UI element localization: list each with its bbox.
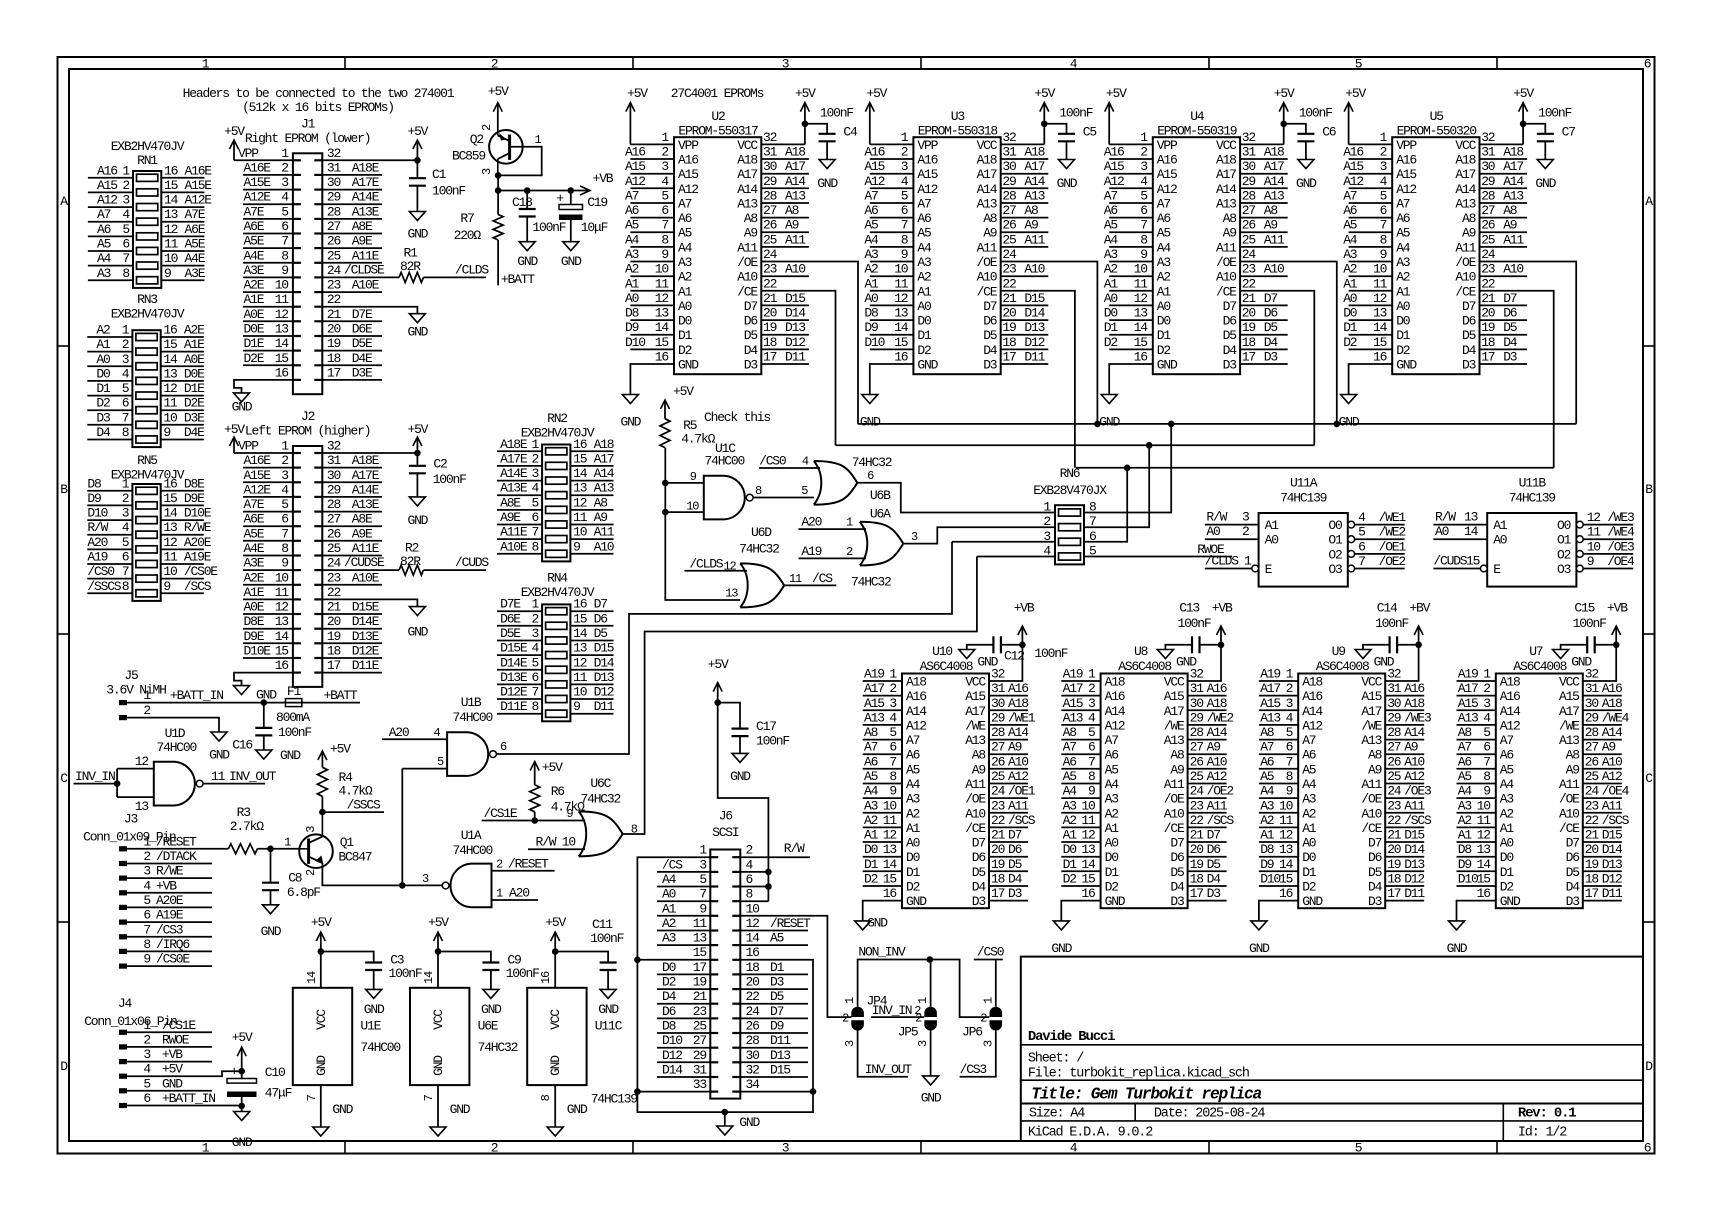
RN2 pin 12 wire bbox=[570, 509, 613, 511]
svg-text:A16: A16 bbox=[97, 163, 117, 178]
capacitor C18 bbox=[524, 187, 531, 194]
U3 right pin 31 wire A18 bbox=[1001, 158, 1049, 160]
svg-text:GND: GND bbox=[598, 1002, 619, 1017]
svg-text:13: 13 bbox=[1134, 306, 1148, 321]
svg-text:A18: A18 bbox=[1024, 145, 1044, 160]
svg-text:14: 14 bbox=[1477, 857, 1492, 872]
svg-text:14: 14 bbox=[655, 320, 670, 335]
svg-text:A20: A20 bbox=[801, 515, 821, 530]
svg-text:D15: D15 bbox=[770, 1063, 790, 1078]
svg-text:GND: GND bbox=[232, 1135, 253, 1150]
svg-text:11: 11 bbox=[163, 396, 178, 411]
svg-text:GND: GND bbox=[860, 415, 881, 430]
RN1 pin 15 wire bbox=[161, 191, 204, 193]
svg-text:2: 2 bbox=[122, 178, 129, 193]
svg-text:D4: D4 bbox=[96, 425, 111, 440]
svg-text:A9: A9 bbox=[1024, 218, 1038, 233]
svg-text:18: 18 bbox=[746, 960, 760, 975]
svg-text:28: 28 bbox=[1481, 189, 1495, 204]
svg-text:19: 19 bbox=[693, 975, 707, 990]
svg-text:VCC: VCC bbox=[1361, 675, 1382, 690]
svg-text:A11: A11 bbox=[1207, 798, 1228, 813]
svg-text:3: 3 bbox=[281, 175, 288, 190]
svg-text:7: 7 bbox=[889, 754, 896, 769]
svg-text:D3: D3 bbox=[972, 894, 986, 909]
svg-text:A9: A9 bbox=[1170, 762, 1184, 777]
svg-text:11: 11 bbox=[883, 813, 898, 828]
RN5 pin 5 wire bbox=[87, 548, 132, 550]
svg-text:2: 2 bbox=[531, 611, 538, 626]
svg-text:+VB: +VB bbox=[162, 1047, 183, 1062]
svg-text:D4E: D4E bbox=[184, 425, 205, 440]
svg-text:A9: A9 bbox=[1264, 218, 1278, 233]
svg-text:22: 22 bbox=[1481, 276, 1495, 291]
svg-text:D15E: D15E bbox=[500, 641, 528, 656]
J6 right pin 12 wire /RESET bbox=[740, 930, 808, 932]
svg-text:23: 23 bbox=[1190, 798, 1204, 813]
U5 left pin 2 wire A16 bbox=[1349, 158, 1393, 160]
svg-text:A3E: A3E bbox=[185, 266, 206, 281]
svg-text:A12: A12 bbox=[1404, 769, 1424, 784]
svg-text:A5: A5 bbox=[1157, 226, 1171, 241]
svg-text:17: 17 bbox=[1190, 886, 1204, 901]
U8 left pin 12 wire A1 bbox=[1061, 841, 1100, 843]
U2 pin 32 VCC wire bbox=[761, 143, 805, 145]
svg-text:/CE: /CE bbox=[1164, 821, 1185, 836]
svg-text:A1: A1 bbox=[1265, 518, 1280, 533]
U10 left pin 1 wire A19 bbox=[863, 680, 902, 682]
svg-text:D5: D5 bbox=[1462, 328, 1476, 343]
svg-text:13: 13 bbox=[1373, 306, 1387, 321]
svg-text:D5: D5 bbox=[1008, 857, 1022, 872]
svg-text:A8E: A8E bbox=[352, 512, 373, 527]
svg-text:A5: A5 bbox=[1458, 769, 1472, 784]
svg-text:A7: A7 bbox=[917, 197, 931, 212]
svg-text:GND: GND bbox=[678, 358, 699, 373]
svg-text:+VB: +VB bbox=[1014, 601, 1035, 616]
svg-text:GND: GND bbox=[1249, 941, 1270, 956]
svg-text:D0: D0 bbox=[1157, 314, 1171, 329]
svg-text:A14: A14 bbox=[1264, 174, 1285, 189]
svg-text:A10: A10 bbox=[1404, 754, 1424, 769]
svg-text:A16: A16 bbox=[1008, 681, 1028, 696]
svg-text:A14: A14 bbox=[1216, 182, 1237, 197]
svg-text:A16E: A16E bbox=[244, 453, 272, 468]
capacitor C8 bbox=[270, 849, 272, 883]
svg-text:D2: D2 bbox=[906, 880, 920, 895]
svg-text:19: 19 bbox=[1190, 857, 1204, 872]
resistor R4 with +5V and /SSCS bbox=[319, 809, 326, 816]
svg-text:A12: A12 bbox=[1343, 174, 1363, 189]
transistor Q1 BC847 bbox=[299, 834, 333, 868]
svg-text:A11E: A11E bbox=[500, 525, 528, 540]
svg-text:17: 17 bbox=[991, 886, 1005, 901]
J1 right pin 21 wire D7E bbox=[322, 320, 382, 322]
svg-text:22: 22 bbox=[763, 276, 777, 291]
svg-text:A8: A8 bbox=[1462, 211, 1476, 226]
U5 right pin 17 wire D3 bbox=[1480, 363, 1528, 365]
U2 left pin 10 wire A2 bbox=[630, 275, 674, 277]
svg-text:14: 14 bbox=[164, 193, 179, 208]
svg-text:3: 3 bbox=[143, 1047, 150, 1062]
svg-text:9: 9 bbox=[1140, 247, 1147, 262]
RN1 internal resistor 3 bbox=[137, 204, 158, 211]
svg-text:A17: A17 bbox=[737, 167, 757, 182]
U3 left pin 3 wire A15 bbox=[870, 173, 914, 175]
svg-text:15: 15 bbox=[275, 644, 289, 659]
svg-text:5: 5 bbox=[1380, 189, 1387, 204]
svg-text:100nF: 100nF bbox=[1059, 106, 1092, 121]
svg-text:A13: A13 bbox=[965, 733, 985, 748]
RN4 pin 16 wire bbox=[570, 610, 613, 612]
svg-text:A0: A0 bbox=[662, 887, 676, 902]
svg-text:12: 12 bbox=[163, 381, 177, 396]
U3 right pin 29 wire A14 bbox=[1001, 187, 1049, 189]
svg-text:A3: A3 bbox=[864, 798, 878, 813]
svg-text:10: 10 bbox=[686, 500, 699, 514]
svg-text:A8: A8 bbox=[1024, 203, 1038, 218]
svg-text:74HC32: 74HC32 bbox=[852, 455, 892, 470]
svg-text:R/W: R/W bbox=[784, 841, 805, 856]
svg-text:12: 12 bbox=[724, 559, 737, 573]
svg-text:A5: A5 bbox=[770, 931, 784, 946]
svg-text:20: 20 bbox=[1481, 306, 1495, 321]
svg-text:A19: A19 bbox=[87, 550, 107, 565]
svg-text:A15: A15 bbox=[97, 178, 117, 193]
U3 pin 22 /CE wire trunk bbox=[1001, 291, 1075, 468]
capacitor C16 bbox=[263, 703, 265, 728]
svg-text:11: 11 bbox=[164, 237, 179, 252]
RN1 internal resistor 1 bbox=[137, 174, 158, 181]
svg-text:KiCad E.D.A. 9.0.2: KiCad E.D.A. 9.0.2 bbox=[1028, 1126, 1153, 1141]
svg-text:8: 8 bbox=[901, 232, 908, 247]
svg-text:A1E: A1E bbox=[184, 337, 205, 352]
svg-text:D11: D11 bbox=[785, 350, 806, 365]
svg-text:A0: A0 bbox=[1104, 291, 1118, 306]
U4 pin 22 /CE wire trunk bbox=[1240, 291, 1314, 446]
U2 pin 24 /OE wire trunk bbox=[761, 262, 858, 424]
svg-text:D6: D6 bbox=[1566, 850, 1580, 865]
svg-text:GND: GND bbox=[561, 254, 582, 269]
J1 left pin 5 wire A7E bbox=[243, 218, 293, 220]
svg-text:25: 25 bbox=[1585, 769, 1599, 784]
svg-text:3: 3 bbox=[122, 193, 129, 208]
svg-text:R/WE: R/WE bbox=[156, 864, 184, 879]
svg-text:D1: D1 bbox=[1157, 328, 1172, 343]
wire /OE distribution net bbox=[858, 423, 1576, 425]
RN6 internal resistor 2 bbox=[1059, 524, 1081, 531]
svg-text:12: 12 bbox=[746, 916, 760, 931]
svg-text:30: 30 bbox=[1585, 696, 1599, 711]
fuse F1 bbox=[261, 699, 268, 706]
svg-text:21: 21 bbox=[327, 307, 342, 322]
svg-text:A3: A3 bbox=[1500, 792, 1514, 807]
svg-text:C2: C2 bbox=[433, 457, 447, 472]
svg-text:29: 29 bbox=[1190, 710, 1204, 725]
svg-text:A15: A15 bbox=[965, 689, 985, 704]
JP5 pin 3 wire to GND bbox=[930, 1028, 932, 1076]
svg-text:5: 5 bbox=[1358, 525, 1365, 540]
resistor network RN1 bbox=[133, 171, 161, 288]
svg-text:A7: A7 bbox=[864, 189, 878, 204]
svg-text:A18: A18 bbox=[1207, 696, 1227, 711]
U4 right pin 27 wire A8 bbox=[1240, 217, 1288, 219]
U4 right pin 29 wire A14 bbox=[1240, 187, 1288, 189]
svg-text:D5: D5 bbox=[594, 626, 608, 641]
U5 left pin 4 wire A12 bbox=[1349, 187, 1393, 189]
U5 right pin 29 wire A14 bbox=[1480, 187, 1528, 189]
RN2 pin 7 wire bbox=[497, 538, 542, 540]
svg-text:A1: A1 bbox=[625, 276, 640, 291]
U9 right pin 21 wire D15 bbox=[1385, 841, 1424, 843]
svg-text:/OE: /OE bbox=[977, 255, 998, 270]
U8 right pin 30 wire A18 bbox=[1188, 709, 1227, 711]
svg-text:A19: A19 bbox=[1458, 667, 1478, 682]
svg-text:2: 2 bbox=[281, 160, 288, 175]
U7 right pin 18 wire D12 bbox=[1583, 885, 1622, 887]
svg-text:D0: D0 bbox=[1105, 850, 1119, 865]
RN4 internal resistor 1 bbox=[546, 608, 567, 615]
svg-text:A8E: A8E bbox=[500, 495, 521, 510]
svg-text:D5: D5 bbox=[770, 989, 784, 1004]
svg-text:D6: D6 bbox=[983, 314, 997, 329]
svg-text:14: 14 bbox=[305, 971, 319, 984]
J6 left pin 5 wire A4 bbox=[657, 886, 710, 888]
svg-text:/CE: /CE bbox=[737, 284, 758, 299]
svg-text:13: 13 bbox=[573, 481, 587, 496]
U10 left pin 10 wire A3 bbox=[863, 812, 902, 814]
svg-text:D5: D5 bbox=[1170, 865, 1184, 880]
svg-text:A0: A0 bbox=[1206, 524, 1220, 539]
svg-text:A6: A6 bbox=[1396, 211, 1410, 226]
J6 right pin 24 wire D7 bbox=[740, 1017, 808, 1019]
RN4 pin 1 wire bbox=[497, 610, 542, 612]
U9 right pin 22 wire /SCS bbox=[1385, 826, 1424, 828]
svg-text:/IRQ6: /IRQ6 bbox=[156, 937, 189, 952]
svg-text:O2: O2 bbox=[1557, 547, 1571, 562]
svg-text:U8: U8 bbox=[1134, 644, 1148, 659]
svg-text:29: 29 bbox=[1002, 174, 1016, 189]
svg-text:/SCS: /SCS bbox=[184, 579, 212, 594]
U9 left pin 11 wire A2 bbox=[1259, 826, 1298, 828]
RN1 pin 2 wire bbox=[88, 191, 133, 193]
svg-text:10: 10 bbox=[164, 251, 178, 266]
svg-text:A10: A10 bbox=[594, 539, 614, 554]
svg-text:U1E: U1E bbox=[360, 1019, 381, 1034]
U3 left pin 5 wire A7 bbox=[870, 202, 914, 204]
svg-text:D10: D10 bbox=[864, 335, 884, 350]
svg-text:13: 13 bbox=[164, 207, 178, 222]
svg-text:A15: A15 bbox=[1104, 159, 1124, 174]
svg-text:VCC: VCC bbox=[1455, 138, 1476, 153]
resistor R6 with +5V bbox=[534, 762, 536, 785]
svg-text:15: 15 bbox=[655, 335, 669, 350]
svg-text:D4: D4 bbox=[1566, 880, 1581, 895]
svg-text:A7: A7 bbox=[1343, 189, 1357, 204]
J6 right pin 22 wire D5 bbox=[740, 1003, 808, 1005]
RN5 internal resistor 4 bbox=[136, 531, 157, 538]
svg-text:A5: A5 bbox=[864, 769, 878, 784]
svg-text:22: 22 bbox=[991, 813, 1005, 828]
U11B output 12 wire /WE3 bbox=[1576, 521, 1583, 528]
svg-text:12: 12 bbox=[1134, 291, 1148, 306]
svg-text:27: 27 bbox=[1585, 740, 1599, 755]
svg-text:13: 13 bbox=[655, 306, 669, 321]
net NON_INV wire bbox=[858, 960, 990, 1018]
RN5 pin 1 wire bbox=[87, 490, 132, 492]
svg-text:17: 17 bbox=[327, 365, 341, 380]
svg-text:D0E: D0E bbox=[244, 322, 265, 337]
svg-text:14: 14 bbox=[1134, 320, 1149, 335]
J1 right pin 26 wire A9E bbox=[322, 247, 382, 249]
svg-text:800mA: 800mA bbox=[276, 710, 310, 725]
net label /CLDS into U6D pin 12 bbox=[684, 570, 747, 572]
svg-text:/CUDS: /CUDS bbox=[455, 555, 489, 570]
svg-text:A19: A19 bbox=[801, 544, 821, 559]
U10 right pin 19 wire D5 bbox=[989, 870, 1028, 872]
svg-text:25: 25 bbox=[1242, 232, 1256, 247]
svg-text:D10: D10 bbox=[662, 1033, 682, 1048]
svg-text:VCC: VCC bbox=[1164, 675, 1185, 690]
U5 right pin 27 wire A8 bbox=[1480, 217, 1528, 219]
U1E pin 14 wire to +5V bbox=[320, 952, 322, 988]
svg-text:A1: A1 bbox=[1105, 821, 1120, 836]
J6 right pin 28 wire D11 bbox=[740, 1047, 808, 1049]
svg-text:8: 8 bbox=[281, 248, 288, 263]
J6 ground symbol bbox=[722, 1109, 729, 1116]
RN3 pin 6 wire bbox=[87, 409, 132, 411]
RN4 internal resistor 6 bbox=[546, 681, 567, 688]
J6 right pin 20 wire D3 bbox=[740, 988, 808, 990]
svg-text:RN1: RN1 bbox=[137, 153, 158, 168]
svg-text:D4E: D4E bbox=[352, 351, 373, 366]
svg-text:VCC: VCC bbox=[548, 1009, 563, 1030]
svg-text:/OE: /OE bbox=[1559, 792, 1580, 807]
svg-text:U2: U2 bbox=[711, 109, 725, 124]
U2 right pin 23 wire A10 bbox=[761, 275, 809, 277]
svg-text:/OE3: /OE3 bbox=[1607, 539, 1634, 554]
svg-text:31: 31 bbox=[1387, 681, 1402, 696]
svg-text:19: 19 bbox=[991, 857, 1005, 872]
U10 left pin 4 wire A13 bbox=[863, 724, 902, 726]
svg-text:+BATT_IN: +BATT_IN bbox=[162, 1091, 215, 1106]
J6 left ground rail pins 1 15 33 bbox=[637, 857, 813, 1112]
svg-text:GND: GND bbox=[1099, 415, 1120, 430]
svg-text:A4: A4 bbox=[1105, 777, 1120, 792]
U1E pin 7 wire to GND bbox=[320, 1085, 322, 1127]
U11B output 10 wire /OE3 bbox=[1576, 551, 1583, 558]
svg-text:32: 32 bbox=[1481, 130, 1495, 145]
svg-text:GND: GND bbox=[450, 1102, 471, 1117]
svg-text:28: 28 bbox=[1190, 725, 1204, 740]
U10 left pin 13 wire D0 bbox=[863, 856, 902, 858]
U1D output 11 wire INV_OUT bbox=[203, 783, 265, 785]
svg-text:+5V: +5V bbox=[232, 1030, 253, 1045]
svg-text:18: 18 bbox=[1481, 335, 1495, 350]
svg-text:22: 22 bbox=[1585, 813, 1599, 828]
svg-text:A15: A15 bbox=[678, 167, 698, 182]
svg-text:/SSCS: /SSCS bbox=[87, 579, 121, 594]
U11C pin 16 wire to +5V bbox=[554, 952, 556, 988]
RN1 pin 13 wire bbox=[161, 221, 204, 223]
connector J1 bbox=[293, 153, 322, 394]
RN4 pin 8 wire bbox=[497, 713, 542, 715]
U2 left pin 14 wire D9 bbox=[630, 334, 674, 336]
svg-text:21: 21 bbox=[1002, 291, 1017, 306]
svg-text:D1E: D1E bbox=[244, 336, 265, 351]
svg-text:13: 13 bbox=[573, 641, 587, 656]
svg-text:D7: D7 bbox=[1566, 836, 1580, 851]
svg-text:D1: D1 bbox=[1500, 865, 1515, 880]
svg-text:D10E: D10E bbox=[184, 506, 212, 521]
svg-text:A7: A7 bbox=[1396, 197, 1410, 212]
svg-text:/CUDS: /CUDS bbox=[1433, 554, 1467, 569]
svg-text:5: 5 bbox=[122, 222, 129, 237]
J6 right rail pins 16 34 bbox=[810, 1088, 817, 1095]
svg-text:A6: A6 bbox=[97, 222, 111, 237]
svg-text:8: 8 bbox=[143, 937, 150, 952]
+VB rail from Q2 bbox=[497, 175, 499, 190]
svg-text:32: 32 bbox=[327, 146, 341, 161]
svg-text:A17: A17 bbox=[1559, 704, 1579, 719]
RN2 pin 2 wire bbox=[497, 465, 542, 467]
svg-text:D1: D1 bbox=[1063, 857, 1078, 872]
svg-text:3: 3 bbox=[916, 1040, 930, 1047]
svg-text:A10E: A10E bbox=[500, 539, 528, 554]
J4 pin 1 wire /CS1E bbox=[119, 1030, 127, 1035]
U7 left pin 7 wire A6 bbox=[1457, 768, 1496, 770]
U3 left pin 4 wire A12 bbox=[870, 187, 914, 189]
svg-text:7: 7 bbox=[1140, 218, 1147, 233]
net label /CLDS bbox=[423, 276, 486, 278]
svg-text:27: 27 bbox=[991, 740, 1005, 755]
resistor network RN4 bbox=[542, 604, 570, 721]
svg-text:D3: D3 bbox=[770, 975, 784, 990]
U2 right pin 25 wire A11 bbox=[761, 246, 809, 248]
U10 left pin 5 wire A8 bbox=[863, 739, 902, 741]
svg-text:A6: A6 bbox=[1458, 754, 1472, 769]
svg-text:Rev: 0.1: Rev: 0.1 bbox=[1518, 1106, 1576, 1122]
svg-text:A10: A10 bbox=[1455, 270, 1475, 285]
svg-text:D8: D8 bbox=[1260, 842, 1274, 857]
svg-text:A9: A9 bbox=[785, 218, 799, 233]
RN5 pin 11 wire bbox=[161, 563, 204, 565]
svg-text:A11: A11 bbox=[1361, 777, 1382, 792]
svg-text:GND: GND bbox=[481, 1002, 502, 1017]
U8 right pin 31 wire A16 bbox=[1188, 695, 1227, 697]
wire /CE net U3-U5 bbox=[1076, 467, 1554, 469]
U8 left pin 9 wire A4 bbox=[1061, 797, 1100, 799]
RN5 pin 8 wire bbox=[87, 592, 132, 594]
svg-text:15: 15 bbox=[1466, 554, 1480, 569]
svg-text:A3: A3 bbox=[917, 255, 931, 270]
svg-text:A19E: A19E bbox=[156, 908, 184, 923]
U4 left pin 7 wire A5 bbox=[1109, 231, 1153, 233]
svg-text:11: 11 bbox=[894, 276, 909, 291]
svg-text:/SCS: /SCS bbox=[1207, 813, 1235, 828]
U4 left pin 9 wire A3 bbox=[1109, 261, 1153, 263]
svg-text:A13: A13 bbox=[1503, 189, 1523, 204]
svg-text:16: 16 bbox=[163, 323, 177, 338]
svg-text:D0: D0 bbox=[917, 314, 931, 329]
U5 left pin 7 wire A5 bbox=[1349, 231, 1393, 233]
U8 left pin 6 wire A7 bbox=[1061, 753, 1100, 755]
svg-text:A16E: A16E bbox=[244, 160, 272, 175]
U11A output 6 wire /OE1 bbox=[1348, 551, 1355, 558]
svg-text:8: 8 bbox=[1088, 769, 1095, 784]
J6 right pin 32 wire D15 bbox=[740, 1076, 808, 1078]
svg-text:26: 26 bbox=[1387, 754, 1401, 769]
